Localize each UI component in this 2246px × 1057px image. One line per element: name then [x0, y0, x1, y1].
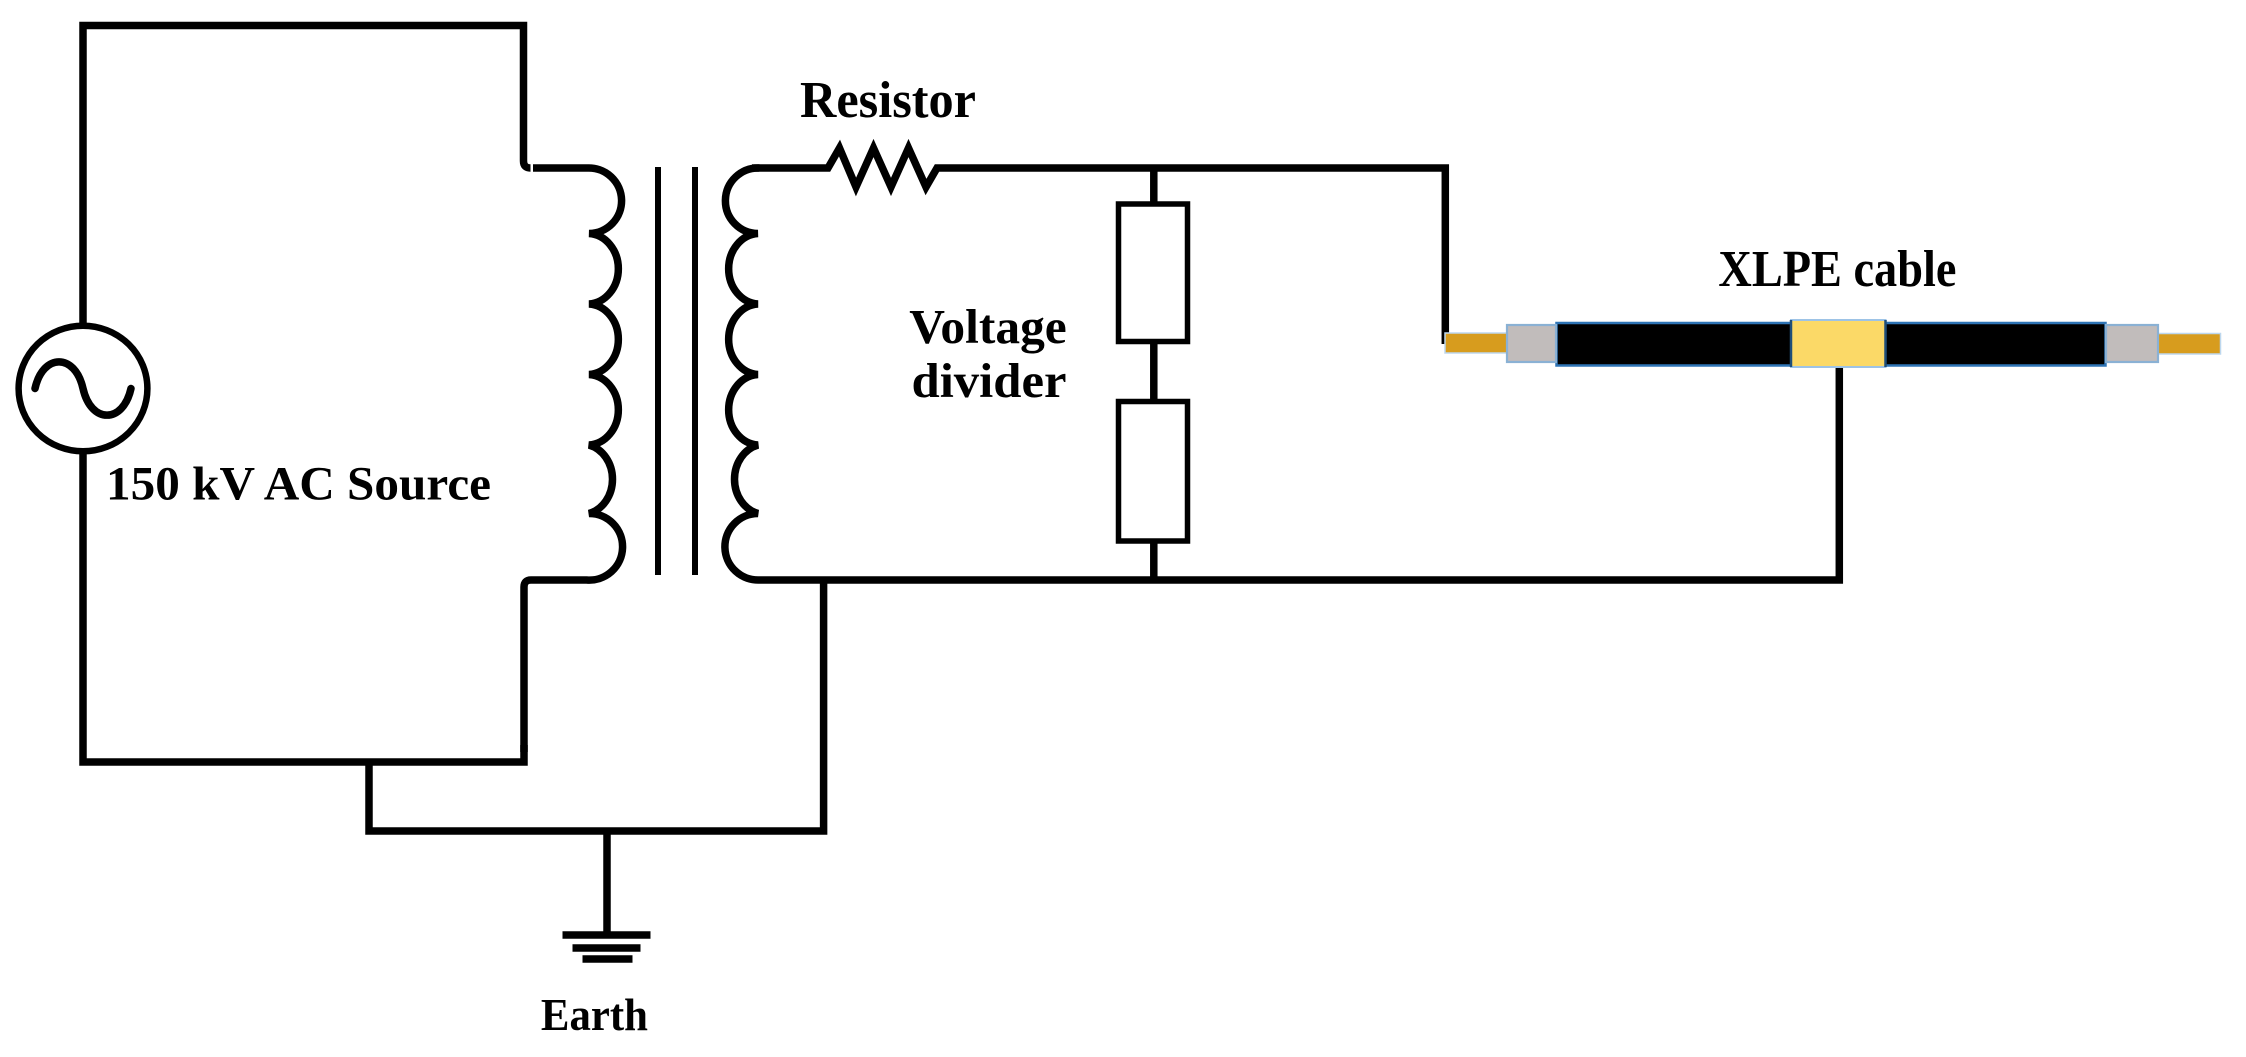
- cable yellow joint: [1791, 320, 1886, 367]
- wire: voltage divider stubs: [1150, 168, 1158, 580]
- voltage divider resistor box R2: [1119, 204, 1188, 342]
- transformer T1 primary winding: [524, 168, 623, 752]
- wire: top-left loop with primary winding lead: [83, 26, 531, 325]
- AC source V1 circle: [19, 326, 148, 452]
- svg-text:divider: divider: [912, 353, 1067, 408]
- svg-text:Resistor: Resistor: [800, 72, 976, 129]
- wire: primary bottom lead down-left back to source: [83, 452, 524, 762]
- wire: top net with resistor R1 zigzag, to cable left lead: [752, 148, 1445, 344]
- wire: ground bus: [369, 580, 824, 831]
- transformer T1 secondary winding + bottom net wire to cable: [725, 168, 1839, 580]
- cable left gray termination: [1507, 325, 1556, 362]
- cable right gray termination: [2106, 325, 2158, 362]
- ground symbol: [563, 935, 651, 959]
- voltage divider resistor box R3: [1119, 402, 1188, 542]
- cable left orange conductor lead: [1445, 333, 1508, 353]
- cable right orange conductor lead: [2158, 334, 2221, 355]
- wire: earth drop: [603, 831, 611, 935]
- cable yellow joint dark side edges: [1791, 320, 1886, 367]
- svg-text:Voltage: Voltage: [909, 299, 1067, 354]
- transformer T1 core lines: [658, 167, 695, 575]
- AC source sine symbol: [35, 362, 131, 415]
- svg-text:150 kV AC Source: 150 kV AC Source: [106, 458, 491, 511]
- svg-text:XLPE cable: XLPE cable: [1718, 241, 1956, 298]
- svg-text:Earth: Earth: [541, 989, 648, 1040]
- XLPE cable body (black with blue outline): [1557, 323, 2106, 366]
